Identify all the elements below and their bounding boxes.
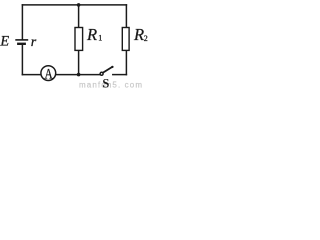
wire bottom right stub [113, 74, 127, 76]
wire R1 branch upper [78, 5, 80, 27]
battery long plate [15, 39, 28, 41]
wire right upper [125, 5, 127, 27]
wire right lower [125, 51, 127, 75]
junction node bottom [77, 73, 81, 77]
background [0, 0, 148, 89]
switch S [100, 66, 114, 76]
svg-text:E: E [0, 34, 9, 50]
svg-text:A: A [45, 67, 54, 82]
wire bottom left segment [22, 74, 41, 76]
svg-text:manfen5. com: manfen5. com [79, 81, 143, 89]
wire left upper [21, 5, 23, 39]
svg-text:R: R [133, 25, 144, 44]
svg-text:S: S [102, 77, 109, 89]
junction node top [77, 3, 81, 7]
wire bottom mid segment [55, 74, 100, 76]
wire top [22, 4, 126, 6]
wire left lower [21, 45, 23, 75]
wire R1 branch lower [78, 51, 80, 75]
resistor R2 box [122, 28, 129, 51]
svg-text:R: R [86, 25, 97, 44]
resistor R1 box [75, 28, 83, 51]
battery short plate [17, 43, 26, 45]
svg-text:1: 1 [98, 34, 102, 43]
svg-text:r: r [31, 35, 37, 50]
ammeter A [41, 66, 56, 82]
svg-text:2: 2 [144, 34, 148, 43]
battery E r [15, 40, 28, 44]
